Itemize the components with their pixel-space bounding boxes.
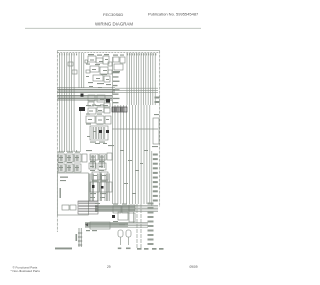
svg-text:FEC30S6D: FEC30S6D (103, 12, 123, 17)
svg-text:WIRING DIAGRAM: WIRING DIAGRAM (95, 21, 133, 26)
svg-text:09/09: 09/09 (190, 265, 198, 269)
svg-text:Publication No. 5995545487: Publication No. 5995545487 (148, 12, 199, 17)
svg-text:* Non-Illustrated Parts: * Non-Illustrated Parts (11, 269, 41, 273)
svg-text:29: 29 (107, 265, 111, 269)
